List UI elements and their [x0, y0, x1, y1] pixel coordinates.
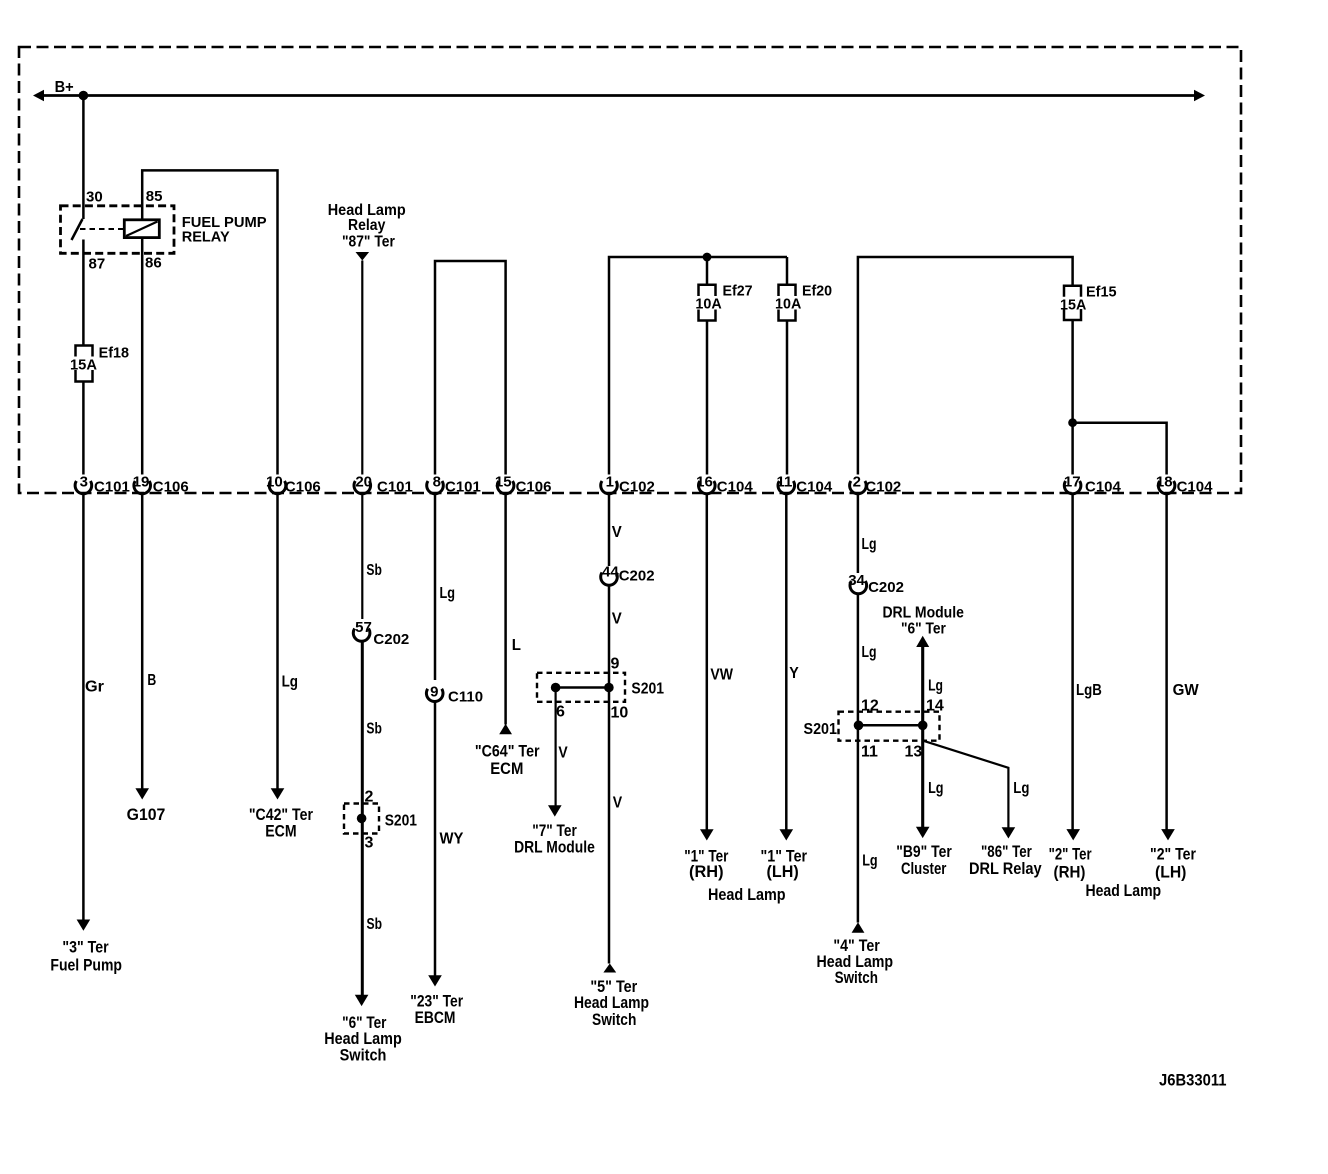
svg-text:9: 9	[611, 656, 620, 673]
terminal arrow to head lamp LH 1	[780, 829, 794, 840]
svg-text:WY: WY	[440, 831, 464, 848]
svg-text:85: 85	[146, 188, 163, 205]
wire: C102 pin 1 down, color V	[608, 494, 611, 566]
svg-text:34: 34	[848, 572, 865, 589]
svg-text:Ef20: Ef20	[802, 283, 832, 300]
svg-text:15A: 15A	[70, 357, 97, 374]
svg-text:10: 10	[611, 705, 629, 722]
svg-text:C104: C104	[1177, 479, 1214, 496]
wire: C106 pin 10 to ECM C42, color Lg	[276, 494, 279, 789]
svg-text:S201: S201	[631, 681, 664, 698]
splice junction dot right	[604, 683, 614, 693]
wire: C104 pin 17 to head lamp RH 2, color LgB	[1071, 494, 1074, 830]
fuse Ef27	[699, 285, 716, 296]
svg-text:S201: S201	[804, 721, 838, 738]
terminal arrow to head lamp RH 1	[700, 829, 714, 840]
svg-text:V: V	[558, 745, 568, 762]
terminal arrow to ECM C42	[271, 788, 285, 799]
svg-text:GW: GW	[1173, 682, 1200, 699]
connector C101 pin 3	[75, 481, 92, 494]
connector C106 pin 19	[134, 481, 151, 494]
svg-text:C101: C101	[377, 479, 413, 496]
head lamp relay feed down-arrow	[356, 252, 370, 261]
wire: branch to connector C104 pin 18	[1073, 423, 1167, 475]
svg-text:ECM: ECM	[490, 759, 523, 778]
wire: C102 pin 2 down, color Lg	[857, 494, 860, 573]
terminal arrow to head lamp LH 2	[1161, 829, 1175, 840]
connector C110 pin 9	[426, 689, 443, 702]
svg-text:Y: Y	[789, 665, 799, 682]
svg-text:10: 10	[266, 474, 283, 491]
svg-text:18: 18	[1156, 474, 1173, 491]
connector C104 pin 17	[1064, 481, 1081, 494]
terminal up-arrow to head lamp switch 5	[603, 964, 616, 973]
svg-text:Head Lamp: Head Lamp	[1085, 881, 1161, 900]
svg-text:VW: VW	[710, 667, 733, 684]
svg-text:"2" Ter: "2" Ter	[1049, 845, 1092, 864]
fuel pump relay dashed box	[61, 206, 175, 254]
connector C106 pin 15	[497, 481, 514, 494]
svg-text:10A: 10A	[775, 296, 801, 313]
svg-text:C102: C102	[619, 479, 655, 496]
svg-text:DRL Relay: DRL Relay	[969, 859, 1042, 878]
svg-text:Ef18: Ef18	[99, 345, 129, 362]
svg-text:C104: C104	[717, 479, 754, 496]
splice junction dot left	[854, 721, 864, 731]
svg-text:Sb: Sb	[366, 562, 382, 579]
svg-text:C101: C101	[94, 479, 130, 496]
wire: relay pin 87 to fuse Ef18	[82, 240, 85, 346]
splice S201 dashed box left	[344, 804, 379, 834]
wire: C102 pin 2 up to fuse Ef15 feed	[858, 257, 1073, 475]
wire: B+ down to relay pin 30	[82, 96, 85, 220]
svg-text:11: 11	[861, 744, 878, 761]
svg-text:(LH): (LH)	[767, 862, 799, 881]
svg-text:30: 30	[86, 189, 103, 206]
svg-text:Lg: Lg	[440, 585, 456, 602]
svg-text:17: 17	[1064, 474, 1081, 491]
svg-text:(LH): (LH)	[1155, 862, 1186, 881]
svg-text:9: 9	[430, 684, 438, 701]
svg-text:G107: G107	[127, 805, 166, 824]
svg-text:10A: 10A	[695, 296, 721, 313]
svg-text:Lg: Lg	[862, 644, 877, 661]
svg-text:DRL Module: DRL Module	[514, 838, 595, 857]
svg-text:Switch: Switch	[340, 1045, 387, 1064]
junction at fuse Ef27 tap	[703, 253, 712, 262]
wire: splice diagonal to DRL relay 86, color Lg	[923, 741, 1009, 828]
wire: bridge C101 pin 8 to C106 pin 15	[435, 261, 506, 475]
svg-text:11: 11	[776, 474, 792, 491]
svg-text:J6B33011: J6B33011	[1159, 1071, 1227, 1090]
terminal arrow to EBCM	[428, 975, 442, 986]
connector C102 pin 2	[850, 481, 867, 494]
svg-text:"2" Ter: "2" Ter	[1150, 845, 1196, 864]
B+ right arrowhead	[1194, 90, 1205, 101]
terminal arrow to fuel pump	[77, 920, 91, 931]
svg-text:Head Lamp: Head Lamp	[708, 885, 786, 904]
svg-text:"3" Ter: "3" Ter	[62, 938, 109, 957]
connector C106 pin 10	[269, 481, 286, 494]
connector C101 pin 20	[354, 481, 371, 494]
svg-text:Lg: Lg	[282, 674, 298, 691]
wire: C110 to EBCM, color WY	[434, 702, 437, 976]
splice S201 branch wire right	[859, 724, 923, 727]
svg-text:6: 6	[556, 704, 565, 721]
junction on B+ bus	[79, 91, 89, 101]
wire: fuse Ef15 down to connector C104 pin 17	[1071, 320, 1074, 475]
splice S201 branch wire	[556, 686, 609, 689]
B+ left arrowhead	[33, 90, 44, 101]
svg-text:19: 19	[133, 474, 150, 491]
connector C202 pin 34	[850, 581, 867, 594]
svg-text:Relay: Relay	[348, 217, 385, 234]
svg-text:(RH): (RH)	[689, 862, 724, 881]
svg-text:15A: 15A	[1060, 297, 1086, 314]
relay coil diagonal	[126, 222, 158, 237]
svg-text:Sb: Sb	[366, 721, 382, 738]
svg-text:C106: C106	[285, 479, 321, 496]
svg-text:44: 44	[602, 564, 619, 581]
terminal arrow to head lamp switch 6	[355, 995, 369, 1006]
svg-text:EBCM: EBCM	[415, 1008, 456, 1027]
svg-text:L: L	[512, 637, 521, 654]
svg-text:"6" Ter: "6" Ter	[901, 621, 946, 638]
svg-text:Lg: Lg	[928, 678, 943, 695]
svg-text:"87" Ter: "87" Ter	[342, 234, 395, 251]
wire: tap down to fuse Ef27	[706, 257, 709, 285]
connector C101 pin 8	[427, 481, 444, 494]
dashed harness boundary box	[19, 47, 1241, 493]
wire: C102 pin 1 up to fuse feed line	[609, 257, 787, 475]
wire: C101 pin 20 down, color Sb	[361, 494, 363, 619]
svg-text:B+: B+	[55, 79, 74, 96]
svg-text:Sb: Sb	[367, 916, 383, 933]
relay switch blade	[72, 219, 83, 240]
svg-text:"C64" Ter: "C64" Ter	[475, 742, 540, 761]
wire: fuse Ef20 to connector C104 pin 11	[786, 321, 789, 475]
relay actuator dashed link	[80, 228, 124, 230]
svg-text:RELAY: RELAY	[182, 229, 230, 246]
terminal arrow to DRL relay 86	[1002, 827, 1016, 838]
B+ bus wire	[41, 94, 1197, 97]
terminal up-arrow to head lamp switch 4	[852, 922, 865, 933]
svg-text:Gr: Gr	[85, 679, 104, 696]
splice S201 dashed box right	[839, 712, 940, 741]
wire: splice to DRL module 7, color V	[554, 688, 556, 806]
svg-text:ECM: ECM	[265, 821, 296, 840]
wire: C104 pin 11 to head lamp LH, color Y	[785, 494, 788, 830]
svg-text:S201: S201	[385, 813, 417, 830]
splice S201 dashed box middle	[537, 673, 625, 702]
wire: C104 pin 18 to head lamp LH 2, color GW	[1165, 494, 1168, 830]
wire: C106 pin 15 to ECM C64, color L	[504, 494, 507, 725]
svg-text:C106: C106	[516, 479, 552, 496]
svg-text:(RH): (RH)	[1054, 862, 1086, 881]
svg-text:86: 86	[145, 255, 162, 272]
wire: C104 pin 16 to head lamp RH, color VW	[706, 494, 709, 830]
svg-text:14: 14	[926, 698, 944, 715]
svg-text:3: 3	[365, 835, 374, 852]
svg-text:8: 8	[433, 474, 441, 491]
wire: head lamp relay 87 to connector C101 pin 20	[361, 261, 363, 475]
svg-text:B: B	[147, 672, 156, 689]
svg-text:15: 15	[495, 474, 512, 491]
svg-text:16: 16	[696, 474, 713, 491]
wire: C106 pin 19 to ground G107, color B	[141, 494, 144, 789]
wire: relay pin 86 down to connector C106 pin 19	[141, 238, 144, 475]
svg-text:2: 2	[853, 474, 861, 491]
svg-text:Ef15: Ef15	[1086, 284, 1117, 301]
connector C104 pin 11	[778, 481, 795, 494]
connector C202 pin 44	[601, 573, 618, 586]
connector C202 pin 57	[353, 629, 370, 642]
wire: relay pin 85 up and over to C106 pin 10	[142, 170, 277, 474]
terminal arrow to G107	[135, 788, 149, 799]
svg-text:C102: C102	[865, 479, 901, 496]
svg-text:C110: C110	[448, 689, 483, 706]
connector C102 pin 1	[601, 481, 618, 494]
svg-text:C202: C202	[373, 631, 409, 648]
junction for C104 pin 18 branch	[1068, 418, 1077, 427]
svg-text:V: V	[612, 524, 622, 541]
svg-text:C202: C202	[619, 568, 655, 585]
svg-text:Lg: Lg	[862, 536, 877, 553]
fuse Ef15	[1064, 286, 1081, 297]
connector C104 pin 16	[699, 481, 716, 494]
svg-text:Cluster: Cluster	[901, 859, 947, 878]
svg-text:57: 57	[355, 619, 372, 636]
svg-text:Lg: Lg	[1013, 780, 1029, 797]
svg-text:DRL Module: DRL Module	[882, 605, 964, 622]
svg-text:Switch: Switch	[835, 968, 878, 987]
wire: C202 pin 34 through splice S201 to switch 4, color Lg	[857, 594, 860, 923]
wire: DRL module 6 through splice to cluster B9, color Lg	[921, 647, 924, 828]
terminal up-arrow to ECM C64	[499, 724, 512, 735]
terminal up-arrow to DRL module 6	[916, 636, 929, 647]
terminal arrow to head lamp RH 2	[1066, 829, 1080, 840]
svg-text:C104: C104	[796, 479, 833, 496]
svg-text:C104: C104	[1085, 479, 1122, 496]
wire: C202 pin 44 through splice S201 to switch 5, color V	[608, 586, 611, 964]
svg-text:C202: C202	[868, 579, 904, 596]
wire: C202 pin 57 to splice S201, color Sb	[361, 642, 364, 996]
splice junction dot right	[918, 721, 928, 731]
fuse Ef20	[779, 285, 796, 296]
fuse Ef18	[76, 346, 93, 357]
svg-text:V: V	[612, 611, 622, 628]
svg-text:20: 20	[355, 474, 372, 491]
connector C104 pin 18	[1158, 481, 1175, 494]
svg-text:Lg: Lg	[928, 780, 943, 797]
svg-text:LgB: LgB	[1076, 682, 1102, 699]
svg-text:87: 87	[89, 256, 106, 273]
relay coil box	[124, 220, 159, 238]
svg-text:Lg: Lg	[862, 853, 877, 870]
svg-text:C101: C101	[445, 479, 481, 496]
svg-text:Fuel Pump: Fuel Pump	[50, 956, 122, 975]
svg-text:Switch: Switch	[592, 1010, 636, 1029]
terminal arrow to cluster B9	[916, 827, 930, 838]
svg-text:1: 1	[606, 474, 614, 491]
wire: feed to fuse Ef20	[786, 257, 789, 285]
wire: fuse Ef18 to connector C101 pin 3	[82, 382, 85, 475]
splice S201 junction dot	[357, 814, 367, 824]
wire: C101 pin 8 to C110, color Lg	[434, 494, 437, 680]
svg-text:C106: C106	[153, 479, 189, 496]
svg-text:V: V	[613, 795, 623, 812]
wire: fuse Ef27 to connector C104 pin 16	[706, 321, 709, 475]
svg-text:3: 3	[80, 474, 88, 491]
svg-text:13: 13	[905, 744, 923, 761]
wire: C101 pin 3 to fuel pump, color Gr	[82, 494, 85, 920]
terminal arrow to DRL module 7	[548, 805, 562, 816]
splice junction dot left	[551, 683, 561, 693]
svg-text:Ef27: Ef27	[723, 283, 753, 300]
